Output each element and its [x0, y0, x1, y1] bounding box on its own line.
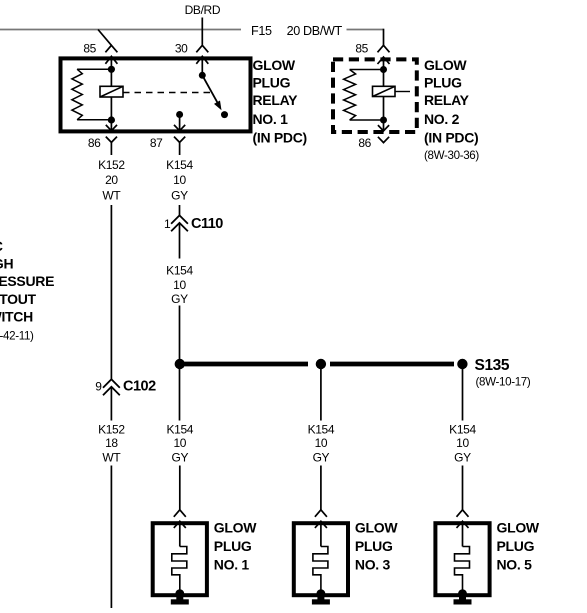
- connector C102 cavity 9: [103, 379, 120, 387]
- svg-text:85: 85: [83, 42, 96, 56]
- svg-text:10: 10: [173, 173, 186, 187]
- svg-text:86: 86: [88, 136, 101, 150]
- relay2 coil wire: [383, 70, 385, 121]
- glow plug relay no.1 box: [61, 58, 251, 131]
- wire from splice to glow plug no.1: [179, 369, 181, 421]
- wire diagonal drop to relay1 pin 85: [98, 30, 111, 46]
- connector pin 87 relay1 (mating halves): [174, 125, 185, 131]
- svg-text:GLOW: GLOW: [424, 57, 467, 73]
- svg-text:(IN PDC): (IN PDC): [424, 129, 478, 145]
- svg-text:20: 20: [105, 173, 118, 187]
- svg-text:K154: K154: [166, 264, 193, 278]
- switch relay1 blade (arrow): [202, 75, 218, 103]
- svg-text:PLUG: PLUG: [424, 75, 462, 91]
- svg-text:NO. 5: NO. 5: [497, 557, 533, 573]
- glow plug no. 5 box: [435, 523, 489, 595]
- svg-text:DB/RD: DB/RD: [185, 3, 221, 17]
- wire from splice to glow plug no.3: [320, 369, 322, 421]
- svg-text:GY: GY: [171, 292, 188, 306]
- node relay1 coil bottom: [108, 116, 115, 123]
- svg-text:K152: K152: [98, 423, 125, 437]
- relay1 coil wire pin85-pin86: [110, 69, 112, 120]
- svg-text:PLUG: PLUG: [497, 538, 535, 554]
- svg-text:18: 18: [105, 436, 118, 450]
- svg-text:10: 10: [315, 436, 328, 450]
- resistor (relay1 internal): [77, 68, 111, 70]
- svg-text:K154: K154: [449, 423, 476, 437]
- resistor (relay2 internal): [350, 69, 384, 71]
- ground symbol glow plug no. 5: [454, 599, 472, 604]
- svg-text:NO. 3: NO. 3: [355, 557, 391, 573]
- node relay2 coil top: [380, 66, 387, 73]
- heating element glow plug no. 3: [313, 547, 328, 592]
- svg-text:PLUG: PLUG: [355, 538, 393, 554]
- wire from splice to glow plug no.5: [462, 369, 464, 421]
- wire drop to relay2 pin 85: [383, 29, 385, 46]
- svg-text:(8W-42-11): (8W-42-11): [0, 330, 34, 343]
- svg-text:30: 30: [175, 42, 188, 56]
- svg-text:(8W-30-36): (8W-30-36): [424, 149, 479, 162]
- wire K152 continues off page: [110, 466, 112, 609]
- svg-text:SWITCH: SWITCH: [0, 309, 33, 325]
- node splice dot 3 (S135): [457, 359, 467, 369]
- svg-text:RELAY: RELAY: [253, 92, 299, 108]
- svg-text:GY: GY: [313, 450, 330, 464]
- dashed actuation link relay1: [123, 92, 211, 94]
- connector pin 86 relay2 (mating halves): [383, 120, 385, 131]
- svg-text:86: 86: [358, 136, 371, 150]
- svg-text:GLOW: GLOW: [253, 57, 296, 73]
- ground symbol glow plug no. 3: [312, 599, 330, 604]
- heating element glow plug no. 1: [172, 547, 187, 592]
- splice S135 bus: [185, 362, 309, 367]
- svg-text:GLOW: GLOW: [214, 520, 257, 536]
- node relay1 coil top: [108, 66, 115, 73]
- svg-text:20 DB/WT: 20 DB/WT: [287, 24, 343, 38]
- svg-text:A/C: A/C: [0, 238, 3, 254]
- svg-text:WT: WT: [102, 450, 121, 464]
- wire fused feed F15 horizontal (left segment): [0, 29, 241, 31]
- svg-text:K154: K154: [308, 423, 335, 437]
- svg-text:PRESSURE: PRESSURE: [0, 273, 54, 289]
- svg-text:C102: C102: [123, 379, 156, 395]
- connector pin 85 relay1 (mating halves): [105, 45, 117, 52]
- svg-text:(IN PDC): (IN PDC): [253, 129, 307, 145]
- glow plug no. 3 box: [294, 523, 348, 595]
- connector at glow plug no. 3: [315, 510, 327, 517]
- svg-text:1: 1: [164, 217, 171, 231]
- svg-text:K154: K154: [166, 423, 193, 437]
- wire to glow plug no. 5: [462, 466, 464, 510]
- connector C110 cavity 1: [171, 215, 188, 223]
- heating element glow plug no. 5: [455, 547, 470, 592]
- relay2 coil lead right: [395, 91, 410, 93]
- node splice dot 1: [175, 359, 185, 369]
- node splice dot 2: [316, 359, 326, 369]
- svg-text:K152: K152: [98, 158, 125, 172]
- svg-text:(8W-10-17): (8W-10-17): [476, 375, 531, 388]
- svg-text:9: 9: [95, 380, 102, 394]
- svg-text:10: 10: [173, 278, 186, 292]
- connector at glow plug no. 5: [457, 510, 469, 517]
- svg-text:WT: WT: [102, 189, 121, 203]
- switch relay1 open contact node: [221, 111, 228, 118]
- wire K154 to splice S135: [179, 306, 181, 360]
- ground symbol glow plug no. 1: [171, 599, 189, 604]
- wire DB/RD drop to relay1 pin 30: [201, 18, 203, 45]
- ground node glow plug no. 5: [458, 589, 467, 598]
- svg-text:RELAY: RELAY: [424, 92, 470, 108]
- relay1 coil symbol: [100, 86, 123, 97]
- connector at glow plug no. 1: [174, 510, 186, 517]
- glow plug relay no.2 dashed box: [333, 59, 417, 132]
- wire to glow plug no. 3: [320, 466, 322, 510]
- svg-text:HIGH: HIGH: [0, 256, 13, 272]
- svg-text:GLOW: GLOW: [497, 520, 540, 536]
- wire K154 from relay1 pin87 down to C110: [179, 205, 181, 215]
- ground node glow plug no. 3: [317, 589, 326, 598]
- connector pin 30 relay1 (mating halves): [196, 45, 208, 52]
- svg-text:F15: F15: [251, 24, 272, 38]
- svg-text:87: 87: [150, 136, 163, 150]
- glow plug no. 1 box: [153, 523, 207, 595]
- svg-text:10: 10: [173, 436, 186, 450]
- ground node glow plug no. 1: [175, 589, 184, 598]
- node relay2 coil bottom: [380, 117, 387, 124]
- svg-text:GLOW: GLOW: [355, 520, 398, 536]
- relay2 coil symbol: [373, 86, 396, 96]
- svg-text:CUTOUT: CUTOUT: [0, 291, 37, 307]
- svg-text:10: 10: [456, 436, 469, 450]
- svg-text:GY: GY: [454, 450, 471, 464]
- wire fused feed (right segment to relay2): [347, 29, 384, 31]
- svg-text:NO. 1: NO. 1: [253, 111, 289, 127]
- connector pin 85 relay2 (mating halves): [378, 45, 390, 52]
- svg-text:PLUG: PLUG: [253, 75, 291, 91]
- wire to glow plug no. 1: [179, 466, 181, 510]
- svg-text:C110: C110: [191, 216, 223, 232]
- connector pin 86 relay1 (mating halves): [110, 120, 112, 131]
- switch relay1: pivot node pin30: [199, 72, 206, 79]
- svg-text:PLUG: PLUG: [214, 538, 252, 554]
- wire K152 from relay1 pin86 down to C102: [110, 205, 112, 379]
- svg-text:GY: GY: [171, 450, 188, 464]
- svg-text:NO. 1: NO. 1: [214, 557, 250, 573]
- svg-text:85: 85: [355, 42, 368, 56]
- svg-text:K154: K154: [166, 158, 193, 172]
- svg-text:S135: S135: [475, 357, 510, 374]
- node relay1 pin87 stub: [176, 111, 183, 118]
- svg-text:NO. 2: NO. 2: [424, 111, 460, 127]
- svg-text:GY: GY: [171, 189, 188, 203]
